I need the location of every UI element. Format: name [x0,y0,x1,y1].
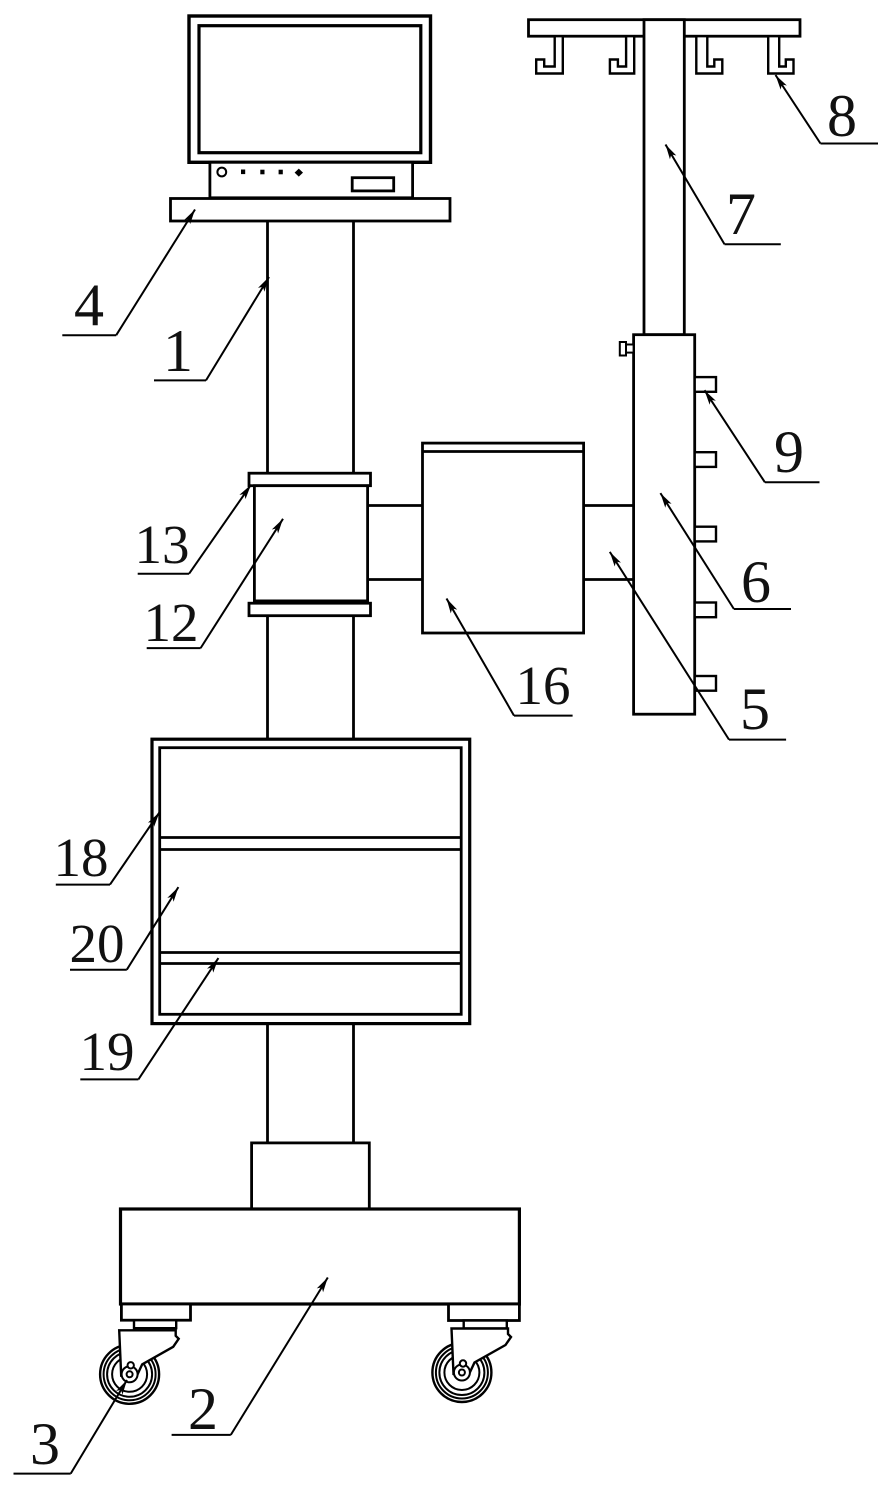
knob stem on plate [626,345,634,353]
leader 1 [206,277,269,380]
leader 19 [138,958,218,1079]
svg-text:20: 20 [70,913,125,974]
left arm bottom line [368,578,423,581]
leader 4 [116,210,195,336]
box 16 [423,443,584,633]
svg-text:8: 8 [827,83,857,149]
hook 8 fourth [768,36,793,73]
cabinet inner [160,748,462,1015]
left arm top line [368,504,423,507]
pole 1 mid left line [266,616,269,740]
svg-text:19: 19 [80,1021,135,1082]
collar bottom flange [249,603,371,616]
svg-text:9: 9 [774,419,804,485]
pole 1 upper left line [266,221,269,473]
pole 1 mid right line [352,616,355,740]
button sq3 [279,170,283,175]
power button [217,168,226,177]
leader 6 [660,493,734,609]
hook 8 second [610,36,634,73]
svg-text:5: 5 [740,676,770,742]
collar body 12 [254,486,367,601]
hook 8 third [696,36,722,73]
collar top flange 13 [249,473,371,486]
base 2 [121,1209,520,1304]
monitor speaker bar [210,162,413,198]
side plate 6 [634,335,695,715]
right foot step [464,1321,507,1329]
hanger bar (top cross bar) [529,20,801,37]
monitor screen [199,26,421,153]
svg-text:4: 4 [74,272,104,338]
svg-text:7: 7 [726,181,756,247]
svg-text:13: 13 [135,514,190,575]
svg-text:16: 16 [516,655,571,716]
right foot plate [449,1304,520,1321]
shelf band2 top line 19 [160,951,462,954]
cabinet outer 18 [152,739,470,1023]
tab 9 no.3 [695,527,716,542]
caster left 3 [100,1330,179,1404]
leader 18 [110,812,160,884]
leader 13 [189,485,251,574]
svg-text:3: 3 [30,1411,60,1477]
button diamond [295,169,303,177]
shelf band2 bottom line [160,962,462,965]
svg-text:12: 12 [144,592,199,653]
knob cap [620,342,626,356]
tab 9 no.4 [695,603,716,618]
leader 7 [666,145,725,245]
shelf band1 top line [160,836,462,839]
right arm 5 top line [584,504,634,507]
tab 9 no.1 [695,377,716,392]
left foot plate [121,1304,190,1320]
hook 8 leftmost [536,36,563,73]
shelf 4 [171,199,451,222]
pole 1 upper right line [352,221,355,473]
caster right 3 [432,1329,511,1403]
tab 9 no.2 [695,452,716,467]
pole 1 lower right line [352,1024,355,1143]
left foot step [134,1320,176,1328]
leader 16 [447,599,515,716]
button sq2 [260,170,264,175]
pole 1 lower left line [266,1024,269,1143]
right arm 5 bottom line [584,578,634,581]
vent slot [352,178,394,191]
svg-text:6: 6 [741,549,771,615]
leader 5 [610,552,729,740]
adapter block [252,1143,370,1209]
leader 8 [776,75,821,144]
monitor outer frame [189,16,431,162]
button sq1 [241,170,245,175]
box 16 lid line [423,450,584,453]
svg-text:18: 18 [54,827,109,888]
IV pole 7 [644,20,684,335]
tab 9 no.5 [695,676,716,691]
svg-text:1: 1 [163,318,193,384]
leader 20 [127,887,179,970]
shelf band1 bottom line [160,848,462,851]
leader 2 [231,1278,328,1435]
leader 3 [71,1380,127,1474]
svg-text:2: 2 [188,1376,218,1442]
leader 12 [201,519,283,648]
leader 9 [705,390,765,482]
